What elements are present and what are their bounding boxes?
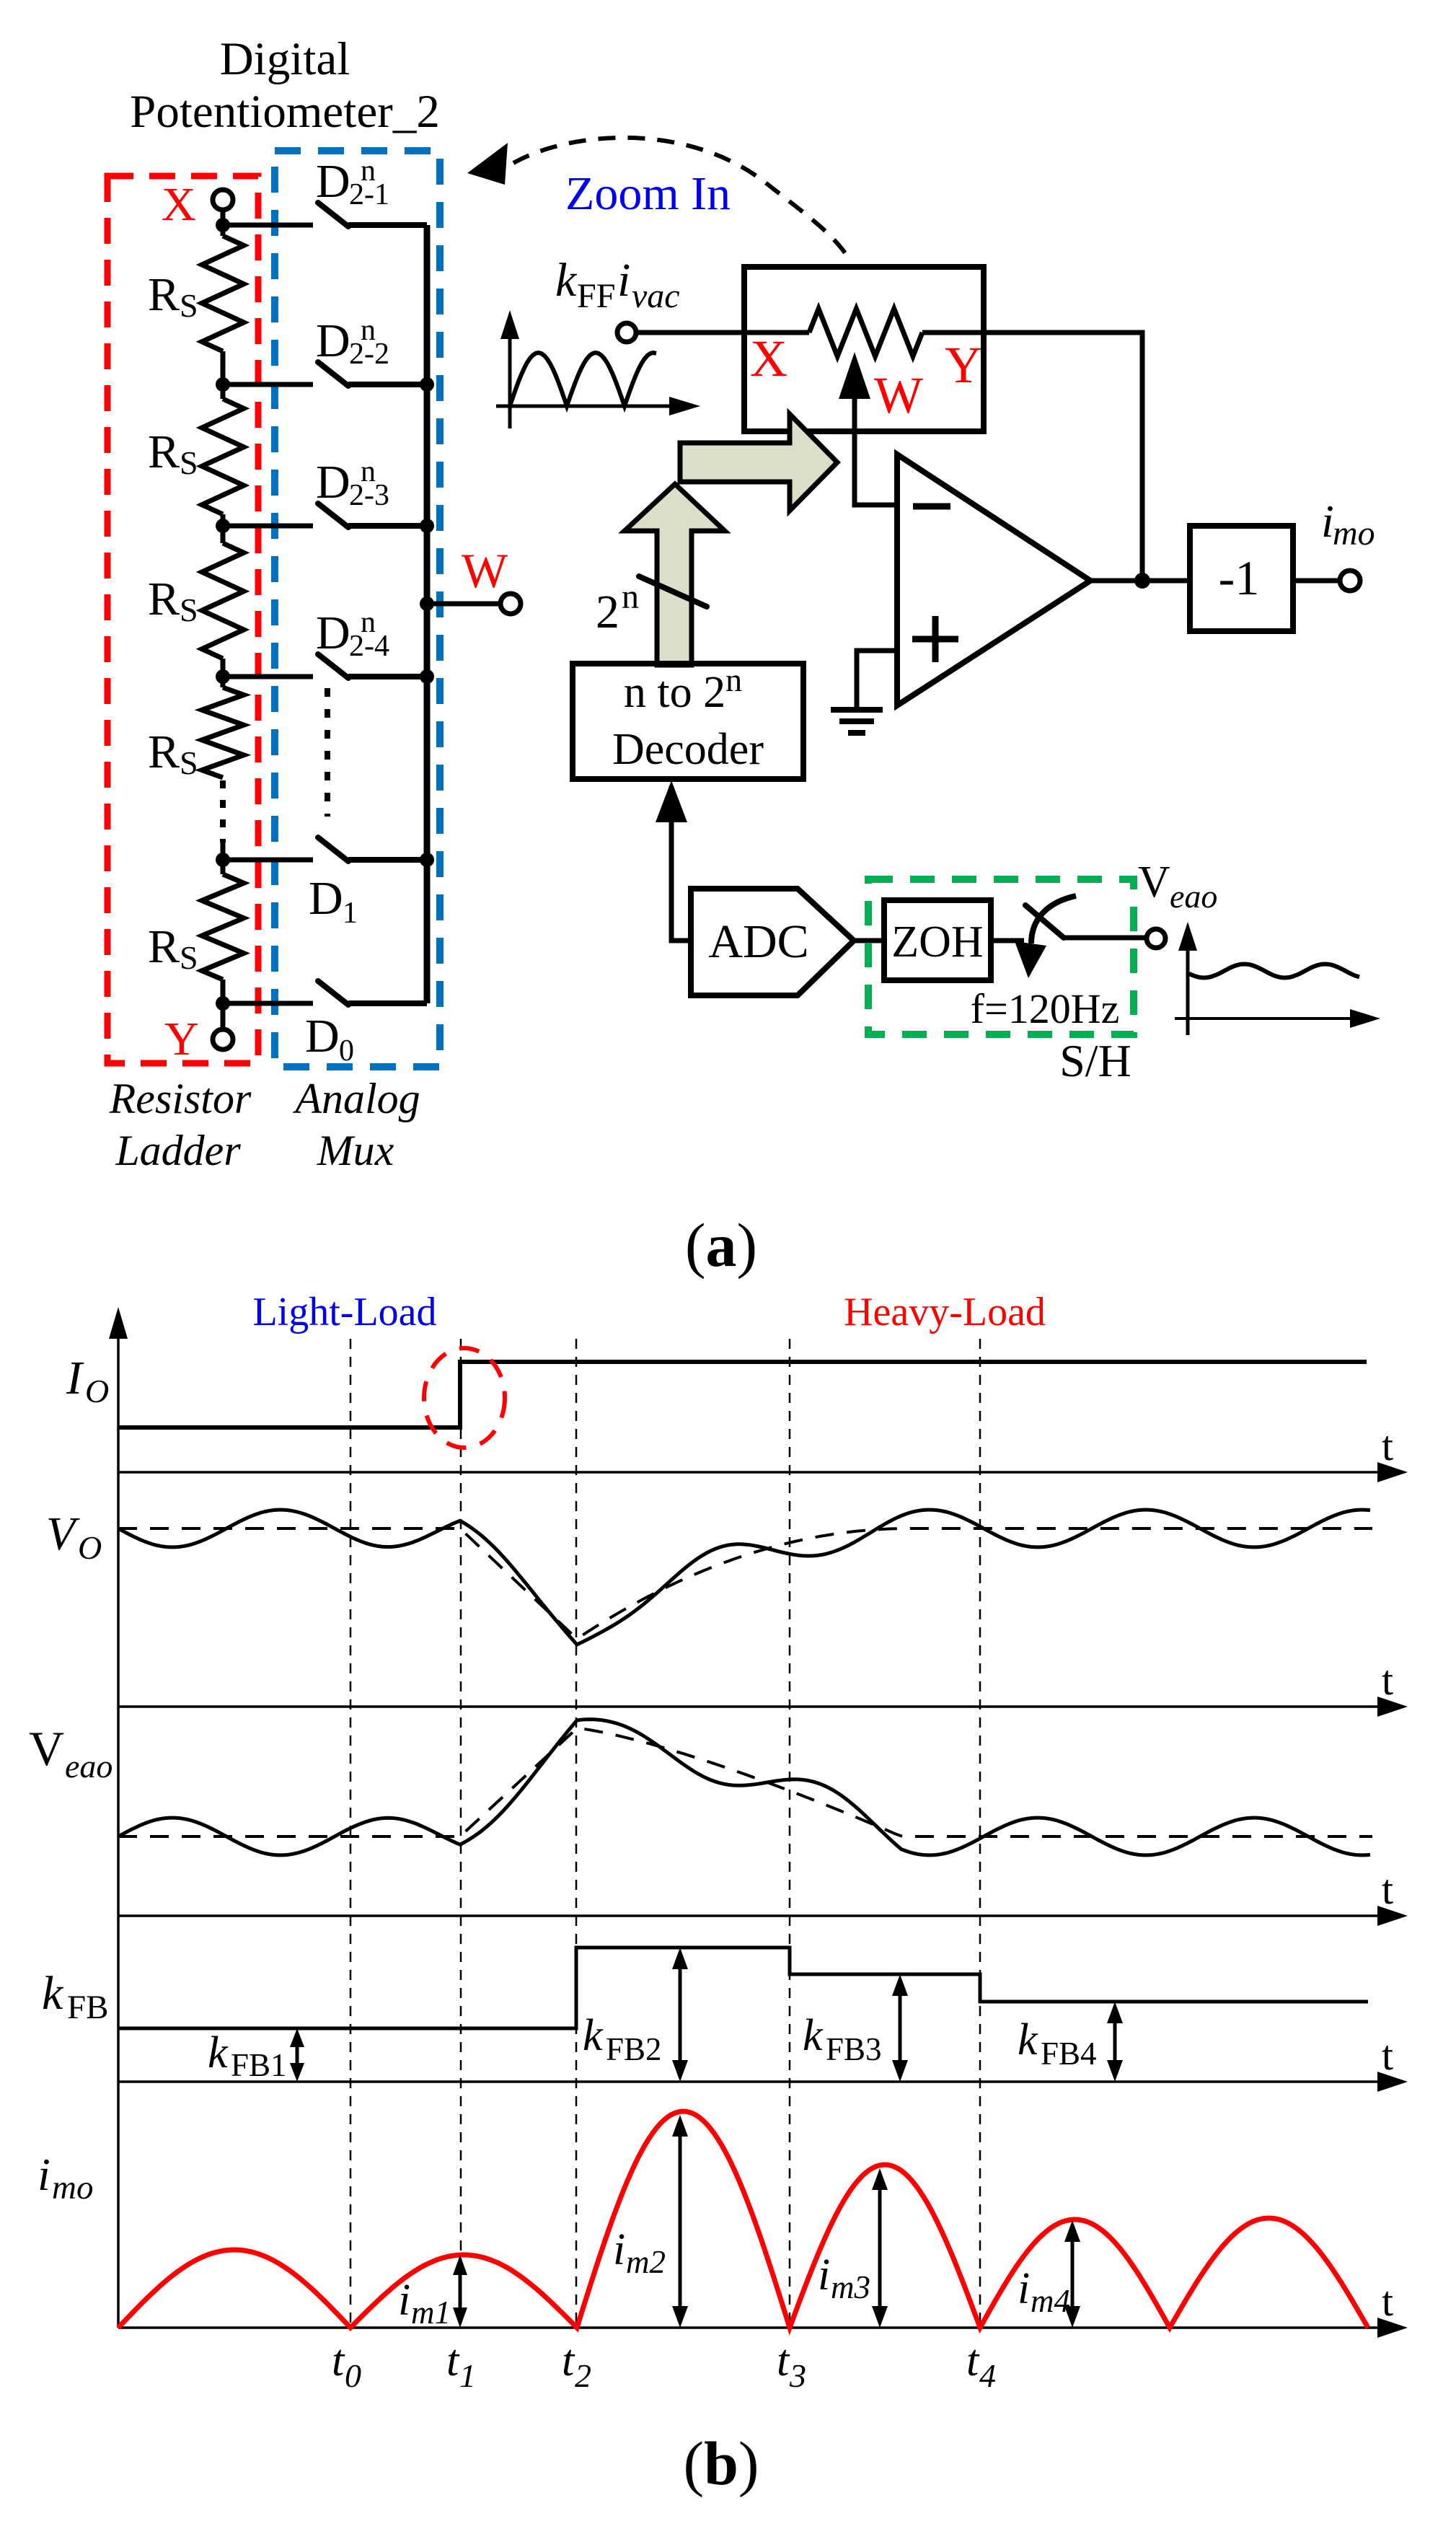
svg-text:i: i [1018,2264,1030,2313]
svg-text:1: 1 [459,2357,476,2394]
label RS2 [148,426,198,481]
label D1 [309,872,358,930]
svg-text:n: n [361,314,376,347]
svg-text:Y: Y [164,1013,199,1065]
red dashed circle (load step) [424,1348,505,1448]
kFB waveform [118,1948,1368,2028]
svg-text:FB4: FB4 [1041,2036,1097,2072]
switch S4 wire to bus [348,674,427,679]
switch S3 wire from node [223,524,313,529]
switch S2 arm [318,362,348,386]
sample-hold switch arm [1025,905,1064,938]
zoom-in dashed arc [467,138,850,260]
input waveform axes (rectified sine) [496,310,700,428]
svg-text:O: O [78,1529,102,1566]
sample-hold actuation arc [1015,896,1076,978]
node 3 [216,519,230,533]
svg-text:O: O [85,1373,109,1409]
svg-text:W: W [462,543,508,598]
svg-text:Zoom In: Zoom In [565,167,731,220]
svg-text:n to 2n: n to 2n [624,661,742,717]
svg-text:3: 3 [789,2357,806,2394]
gridline t1 [460,1339,462,2328]
decoder box [573,664,803,779]
bus junction y=729 [420,519,434,533]
svg-text:I: I [66,1352,84,1404]
svg-text:R: R [148,573,180,625]
svg-text:mo: mo [1333,514,1375,553]
resistor RS3 [202,526,244,677]
svg-text:eao: eao [65,1748,112,1785]
gridline t2 [575,1339,578,2328]
label im1 [398,2276,451,2331]
svg-text:1: 1 [343,897,358,930]
label D2n-3 [316,455,389,512]
svg-text:Ladder: Ladder [115,1127,241,1174]
resistor RS2 [202,384,244,526]
svg-text:Light-Load: Light-Load [252,1290,436,1334]
label im2 [613,2225,666,2280]
potentiometer resistor element [809,309,922,356]
switch S2 wire from node [223,382,313,387]
svg-text:ADC: ADC [708,915,808,968]
svg-text:m2: m2 [626,2244,666,2280]
switch S5 wire to bus [348,857,427,863]
svg-text:D: D [316,456,350,509]
svg-text:Mux: Mux [317,1127,394,1174]
arrow kFB3 [892,1974,908,2082]
green arrow horizontal [680,414,837,511]
mux dotted continuation [325,688,330,817]
terminal X [213,190,233,225]
resistor ladder red dashed box [107,176,258,1063]
node 2 [216,377,230,392]
label RS1 [148,268,198,324]
label t4 [966,2336,996,2394]
svg-text:(b): (b) [683,2429,759,2498]
svg-text:D: D [309,872,343,925]
Veao waveform axes [1175,922,1380,1035]
arrow im2 [672,2115,688,2328]
arrow kFB4 [1107,2002,1123,2082]
op-amp minus sign [913,503,950,510]
label Analog Mux [292,1075,420,1174]
label D2n-1 [316,154,389,211]
svg-text:m4: m4 [1031,2283,1070,2319]
svg-text:m1: m1 [411,2295,451,2331]
arrow im1 [453,2255,467,2328]
svg-text:-1: -1 [1219,550,1260,605]
svg-text:FB: FB [67,1989,109,2026]
VO waveform [118,1510,1370,1645]
svg-text:i: i [37,2149,50,2200]
resistor RS5 [202,860,244,1003]
label kFB2 [583,2011,662,2067]
switch S3 wire to bus [348,523,427,529]
op-amp plus sign [912,616,958,662]
switch S6 wire to bus [348,1000,427,1006]
label 2^n [596,578,639,638]
label D0 [305,1010,354,1068]
svg-text:S: S [180,444,198,481]
svg-text:D: D [316,155,350,208]
ladder dotted continuation [220,780,226,860]
label RS4 [148,726,198,781]
S/H green dashed box [868,879,1134,1034]
svg-text:k: k [208,2028,229,2077]
arrow kFB1 [290,2028,304,2082]
time axis 4 [118,2072,1408,2092]
terminal Y [213,1003,233,1050]
label t2 [562,2336,591,2394]
svg-text:0: 0 [345,2357,361,2394]
svg-text:k: k [555,254,578,307]
label t1 [446,2336,476,2394]
label t0 [332,2336,361,2394]
svg-text:n: n [361,606,376,639]
node 5 [216,853,230,867]
svg-text:D: D [316,314,350,367]
svg-text:Analog: Analog [292,1075,420,1122]
svg-text:n: n [622,578,639,616]
label D2n-4 [316,606,389,663]
svg-text:4: 4 [979,2357,996,2394]
svg-text:D: D [305,1010,340,1062]
input waveform humps [510,353,656,406]
label VO [46,1508,102,1566]
label IO [66,1352,109,1409]
svg-text:k: k [1018,2015,1038,2064]
svg-text:k: k [583,2011,604,2060]
wiper arrow [839,352,897,505]
svg-text:S: S [180,744,198,781]
svg-text:Resistor: Resistor [109,1075,252,1122]
bus junction y=1192 [420,853,434,867]
arrow im4 [1064,2220,1080,2328]
resistor RS4 [202,677,244,778]
resistor RS1 [202,225,244,384]
imo output terminal [1293,571,1360,591]
svg-text:W: W [874,366,923,424]
digital potentiometer box (zoomed) [744,267,984,431]
svg-text:t: t [777,2336,790,2385]
node 4 [216,669,230,684]
ZOH block [884,900,991,980]
op-amp + input wire [857,651,897,708]
op-amp output wire [1090,578,1190,584]
Veao waveform [118,1720,1370,1855]
svg-text:t: t [446,2336,460,2385]
svg-text:X: X [162,178,196,231]
label t3 [777,2336,806,2394]
switch S6 wire from node [223,1001,313,1006]
time axis 2 [118,1697,1408,1717]
svg-text:i: i [398,2276,410,2325]
arrow im3 [872,2168,888,2328]
svg-text:Decoder: Decoder [612,725,764,774]
inverter -1 box [1190,526,1293,631]
input terminal kFFivac [617,323,744,342]
node 6 [216,996,230,1011]
ADC block [691,889,854,995]
svg-text:t: t [1382,2278,1393,2325]
label Resistor Ladder [109,1075,252,1174]
svg-text:Digital: Digital [220,33,350,85]
time axis 5 [118,2318,1408,2338]
label imo (b) [37,2149,93,2207]
bus junction y=938 [420,669,434,684]
ground [831,710,883,733]
svg-text:t: t [1382,2032,1393,2079]
switch S3 arm [318,503,348,527]
svg-text:mo: mo [52,2169,93,2207]
plot left spine [109,1307,128,2328]
label RS3 [148,573,198,628]
output node junction [1134,573,1150,589]
label D2n-2 [316,314,389,371]
node 1 [216,218,230,232]
svg-text:t: t [332,2336,345,2385]
svg-text:m3: m3 [831,2269,870,2305]
analog mux blue dashed box [275,151,440,1067]
svg-text:FF: FF [577,277,615,315]
svg-text:Y: Y [945,336,982,394]
wire switch to Veao terminal [1064,929,1165,948]
svg-text:n: n [361,154,376,188]
wiper output W wire and terminal [420,594,521,614]
time axis 1 [118,1462,1408,1482]
svg-text:D: D [316,607,350,659]
Veao mini wave [1189,964,1359,978]
svg-text:Heavy-Load: Heavy-Load [844,1290,1046,1334]
switch S5 arm [318,837,348,861]
label Veao (b) [29,1721,112,1785]
svg-text:t: t [1382,1657,1393,1704]
svg-text:R: R [148,268,180,321]
svg-text:i: i [617,254,630,307]
gridline t3 [789,1339,791,2328]
svg-text:V: V [46,1508,80,1560]
op-amp U1 [897,454,1090,705]
svg-text:t: t [1382,1422,1393,1469]
mux output bus wire [424,225,431,1003]
svg-text:n: n [361,455,376,488]
svg-text:V: V [29,1721,64,1776]
label kFB [42,1967,109,2026]
switch S5 wire from node [223,858,313,863]
svg-text:f=120Hz: f=120Hz [971,985,1120,1032]
svg-text:ZOH: ZOH [891,918,983,967]
switch S1 arm [318,203,348,226]
svg-text:k: k [42,1967,64,2020]
label RS5 [148,920,198,976]
switch S6 arm [318,981,348,1005]
svg-text:FB1: FB1 [231,2047,287,2083]
svg-text:S: S [180,287,198,324]
label imo [1321,496,1375,553]
svg-text:X: X [750,330,787,387]
arrow kFB2 [672,1948,688,2082]
label im4 [1018,2264,1070,2319]
switch S1 wire to bus [348,222,427,228]
svg-text:R: R [148,426,180,478]
imo waveform (red arches) [118,2111,1368,2328]
svg-text:t: t [1382,1866,1393,1913]
IO waveform [118,1362,1367,1427]
label kFB3 [803,2011,882,2067]
time axis 3 [118,1906,1408,1926]
svg-text:Potentiometer_2: Potentiometer_2 [130,86,440,138]
svg-text:2: 2 [596,586,619,638]
gridline t4 [979,1339,981,2328]
svg-text:vac: vac [632,277,680,315]
bus junction y=533 [420,377,434,392]
svg-text:k: k [803,2011,824,2060]
wire ADC to ZOH [854,938,884,943]
title Digital Potentiometer_2 [130,33,440,138]
Veao average dashed [118,1728,1372,1836]
svg-text:FB3: FB3 [826,2031,882,2067]
label im3 [818,2251,870,2305]
wire ZOH to switch [991,938,1024,943]
svg-text:t: t [562,2336,575,2385]
svg-text:0: 0 [339,1034,354,1068]
switch S4 arm [318,654,348,678]
gridline t0 [350,1339,352,2328]
switch S2 wire to bus [348,382,427,387]
svg-text:V: V [1138,858,1170,907]
label kFB1 [208,2028,287,2083]
decoder label [612,661,764,774]
svg-text:S: S [180,939,198,976]
svg-text:2: 2 [575,2357,591,2394]
green arrow vertical (2^n bus) [625,484,725,665]
switch S4 wire from node [223,674,313,679]
wire ADC to decoder [656,780,691,941]
VO average dashed [118,1528,1372,1637]
switch S1 wire from node [223,223,313,228]
svg-text:S/H: S/H [1059,1035,1131,1086]
svg-text:R: R [148,920,180,973]
label kFB4 [1018,2015,1097,2072]
svg-text:i: i [818,2251,830,2300]
svg-text:S: S [180,591,198,628]
svg-text:FB2: FB2 [606,2031,662,2067]
svg-text:i: i [613,2225,625,2274]
svg-text:R: R [148,726,180,778]
wire Y side to feedback [922,333,1142,581]
svg-text:(a): (a) [685,1210,757,1280]
wire X side [744,330,809,335]
bus slash [639,576,707,607]
svg-text:eao: eao [1170,878,1217,915]
svg-text:t: t [966,2336,980,2385]
label Veao (a) [1138,858,1217,915]
label kFF ivac [555,254,680,315]
